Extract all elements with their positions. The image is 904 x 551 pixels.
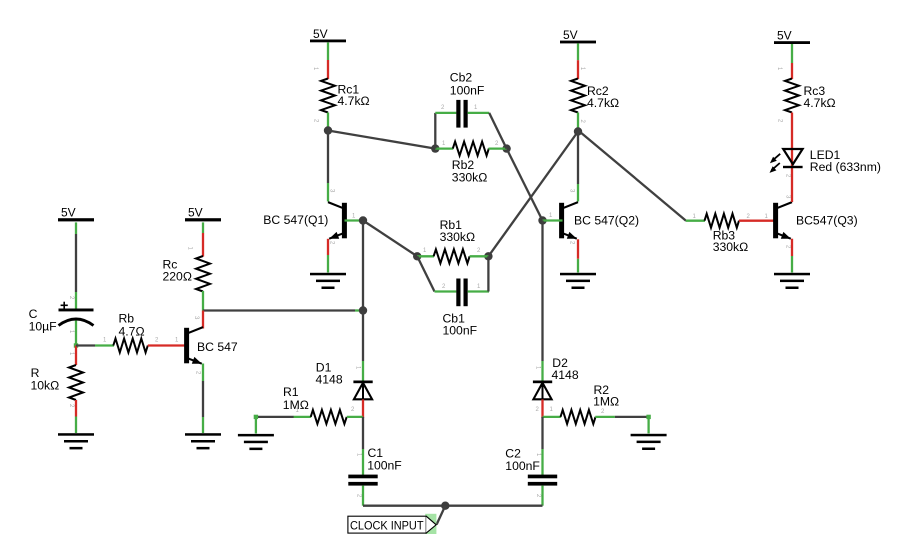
wire Rc2 pin2 to node A2	[577, 113, 579, 132]
wire BC547 collector pin (red)	[202, 311, 204, 329]
wire 5V to capacitor C pin1	[75, 222, 77, 308]
power 5V supply (above Rc1)	[310, 27, 346, 42]
net label CLOCK INPUT flag	[348, 514, 437, 534]
wire Cb1 pin1 to Rb1 right node	[468, 256, 489, 291]
power 5V supply (left, above C)	[58, 206, 94, 222]
wire Cb2 pin1 to Rb2 right node	[468, 113, 507, 149]
LED LED1 Red	[783, 149, 803, 168]
wire Rc1 pin2 to node A1	[327, 113, 329, 131]
svg-text:Rb: Rb	[119, 312, 135, 326]
wire Q1 base to base node	[345, 219, 364, 221]
svg-text:BC 547(Q2): BC 547(Q2)	[574, 213, 639, 227]
svg-text:R1: R1	[283, 385, 299, 399]
svg-text:4.7Ω: 4.7Ω	[119, 325, 145, 339]
svg-text:10µF: 10µF	[29, 320, 57, 334]
svg-text:BC 547(Q1): BC 547(Q1)	[263, 213, 328, 227]
wire 5V to Rc2 pin1	[577, 43, 579, 79]
label Rc 220Ohm	[163, 258, 192, 284]
label C 10uF	[29, 307, 57, 334]
wire BC547 emitter to ground	[202, 364, 204, 434]
svg-text:100nF: 100nF	[450, 83, 485, 97]
wire clock node to flag tip	[437, 506, 446, 525]
transistor BC 547 (left)	[184, 328, 189, 364]
svg-text:4.7kΩ: 4.7kΩ	[804, 96, 836, 110]
wire Q2 base node down to D2 cathode	[541, 221, 543, 381]
svg-text:330kΩ: 330kΩ	[440, 230, 476, 244]
node clock input junction	[441, 502, 449, 510]
node A2 (Rc2/Q2 collector)	[574, 127, 582, 135]
wire Q1 emitter to ground	[327, 239, 329, 273]
wire Rc3 pin2 through LED1 to Q3 collector (red)	[791, 113, 793, 203]
wire Q1 base node to Rb1 left node (diagonal)	[363, 221, 417, 257]
svg-text:100nF: 100nF	[367, 459, 402, 473]
ground (below Q1)	[310, 273, 346, 289]
svg-text:5V: 5V	[777, 29, 792, 43]
svg-text:4.7kΩ: 4.7kΩ	[587, 96, 619, 110]
pin labels R2	[536, 407, 606, 415]
svg-text:Cb2: Cb2	[450, 70, 473, 84]
wire collector node to Q1-base/D1 node (horizontal)	[203, 309, 363, 311]
pin labels Cb1	[442, 284, 481, 290]
wire node A1 to Q1 collector	[327, 131, 329, 202]
label D2 4148	[552, 356, 579, 382]
transistor BC 547 Q2	[559, 203, 564, 239]
label R1 1MOhm	[283, 385, 309, 412]
resistor Rc 220Ohm	[196, 256, 210, 292]
svg-text:10kΩ: 10kΩ	[31, 379, 60, 393]
diode D2 4148	[533, 381, 552, 400]
label D1 4148	[316, 361, 343, 387]
transistor BC547 Q3	[773, 203, 778, 239]
node Rb2 left	[431, 144, 439, 152]
svg-text:CLOCK INPUT: CLOCK INPUT	[350, 519, 424, 533]
capacitor C1 100nF	[348, 475, 377, 486]
ground (below BC 547)	[185, 433, 221, 449]
pin labels Rb	[103, 338, 179, 344]
wire 5V to Rc1 pin1	[327, 42, 329, 79]
diode D1 4148	[353, 381, 372, 400]
svg-text:BC547(Q3): BC547(Q3)	[796, 213, 858, 227]
resistor Rc3 4.7kOhm	[785, 79, 799, 113]
resistor R1 1MOhm	[293, 410, 363, 424]
wire clock line C1 to C2	[363, 505, 543, 507]
pin labels Rb3	[693, 214, 769, 220]
power 5V supply (above Rc2)	[560, 28, 596, 43]
wire R1/D1 node down to C1 pin1	[362, 417, 364, 475]
wire D2 anode to R2/C2 node (red)	[541, 399, 543, 418]
node Rb1 left	[413, 252, 421, 260]
label Rb3 330kOhm	[713, 228, 749, 254]
label R 10kOhm	[31, 366, 60, 392]
wire Q2 emitter to ground	[577, 239, 579, 272]
svg-text:4148: 4148	[552, 368, 579, 382]
wire Rb pin2 to BC547 base (red)	[148, 344, 186, 346]
LED1 emission arrows	[770, 154, 781, 173]
wire Rb1 left node to Cb1 pin2 (diagonal)	[417, 256, 456, 291]
wire node to Rb pin1	[76, 344, 114, 346]
node Rb1 right	[484, 252, 492, 260]
transistor BC 547 Q1 (mirrored)	[342, 203, 347, 239]
label C2 100nF	[505, 446, 540, 473]
svg-text:5V: 5V	[563, 28, 578, 42]
resistor Rc1 4.7kOhm	[321, 79, 335, 113]
wire Q3 emitter to ground	[791, 239, 793, 273]
label Rc2 4.7kOhm	[587, 84, 619, 110]
ground (left of R1)	[238, 434, 274, 450]
ground (right of R2)	[631, 434, 667, 450]
wire C2 pin2 to clock wire	[541, 486, 543, 506]
wire Rb2 left node up to Cb2 pin2	[435, 113, 456, 149]
wire R1 pin1 to ground (corner)	[254, 415, 294, 434]
wire R2/D2 node down to C2 pin1	[541, 417, 543, 475]
svg-text:BC 547: BC 547	[197, 340, 238, 354]
resistor Rb3 330kOhm	[686, 214, 739, 228]
wire C1 pin2 to clock wire	[362, 486, 364, 506]
node C/Rb/R junction	[74, 343, 78, 347]
label Rb1 330kOhm	[440, 218, 476, 244]
capacitor C 10uF electrolytic	[59, 302, 94, 326]
wire 5V to Rc pin1	[202, 222, 204, 256]
label Cb1 100nF	[443, 311, 478, 337]
pin labels Rb1	[423, 248, 481, 254]
svg-text:100nF: 100nF	[505, 459, 540, 473]
wire node A1 to Rb2 left node (diagonal)	[328, 131, 435, 149]
capacitor Cb2 100nF	[456, 100, 467, 128]
label Rc1 4.7kOhm	[338, 82, 370, 108]
power 5V supply (above Rc3)	[774, 29, 810, 44]
node Q1 base junction	[359, 216, 367, 224]
svg-text:1MΩ: 1MΩ	[593, 395, 619, 409]
label Rb2 330kOhm	[452, 158, 488, 184]
svg-text:5V: 5V	[61, 206, 76, 220]
node Q2 base junction	[538, 216, 546, 224]
wire Rc pin2 to collector node	[202, 291, 204, 311]
ground (below Q3)	[774, 273, 810, 289]
label Cb2 100nF	[450, 70, 485, 97]
label R2 1MOhm	[593, 383, 619, 409]
wire Rb3 pin2 to Q3 base (red)	[739, 220, 775, 222]
wire Q2 base node to base pin	[543, 219, 563, 221]
power 5V supply (above Rc)	[185, 206, 221, 222]
wire C pin2 to node (C/Rb/R junction)	[75, 321, 77, 347]
node mid (collector wire/D1)	[359, 306, 367, 314]
wire Rb2 right node to Q2 base node (diagonal)	[507, 149, 543, 221]
label LED1 Red (633nm)	[810, 148, 881, 174]
wire Q1 base node down to mid node	[362, 221, 364, 311]
pin numbers (rotated, misc)	[68, 67, 791, 498]
resistor Rb 4.7Ohm	[113, 339, 148, 353]
resistor Rb2 330kOhm	[435, 142, 506, 156]
pin labels Rb2	[442, 141, 499, 147]
node Rb2 right	[502, 144, 510, 152]
wire D1 anode to R1/C1 node (red)	[362, 399, 364, 418]
wire R2 pin2 to ground (corner)	[615, 415, 651, 434]
svg-text:Red (633nm): Red (633nm)	[810, 160, 881, 174]
capacitor C2 100nF	[528, 475, 557, 486]
resistor R 10kOhm	[69, 365, 83, 400]
wire node A2 to Q2 collector	[577, 132, 579, 202]
wire mid node to D1 cathode	[362, 311, 364, 381]
label Rc3 4.7kOhm	[804, 84, 836, 110]
label C1 100nF	[367, 446, 402, 473]
resistor R2 1MOhm	[543, 410, 615, 424]
svg-text:4148: 4148	[316, 372, 343, 386]
resistor Rb1 330kOhm	[417, 249, 488, 263]
svg-text:4.7kΩ: 4.7kΩ	[338, 94, 370, 108]
resistor Rc2 4.7kOhm	[571, 79, 585, 113]
svg-text:100nF: 100nF	[443, 324, 478, 338]
ground (below R)	[58, 433, 94, 449]
svg-text:220Ω: 220Ω	[163, 270, 192, 284]
node A1 (Rc1/Q1 collector)	[324, 126, 332, 134]
ground (below Q2)	[560, 273, 596, 289]
wire node A2 to Rb3 (diagonal)	[578, 130, 686, 221]
pin labels R1	[296, 407, 356, 414]
label Rb 4.7Ohm	[119, 312, 145, 339]
svg-text:5V: 5V	[313, 27, 328, 41]
capacitor Cb1 100nF	[456, 279, 467, 307]
wire 5V to Rc3 pin1	[791, 44, 793, 79]
svg-text:330kΩ: 330kΩ	[713, 240, 749, 254]
wire node A2 to Rb1 right node (diagonal)	[488, 132, 578, 257]
wire R pin2 to ground	[75, 400, 77, 433]
pin labels Cb2	[441, 105, 478, 111]
svg-text:330kΩ: 330kΩ	[452, 170, 488, 184]
wire node to R pin1 (red)	[75, 346, 77, 366]
svg-text:5V: 5V	[188, 206, 203, 220]
